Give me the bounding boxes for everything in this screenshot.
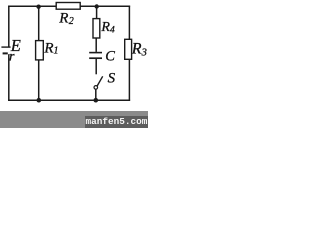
svg-text:4: 4: [110, 25, 115, 35]
svg-text:r: r: [9, 49, 15, 64]
svg-text:3: 3: [141, 47, 147, 58]
wire right lower: [128, 59, 130, 101]
svg-text:C: C: [105, 49, 115, 65]
wire bottom horizontal: [8, 99, 130, 101]
resistor R4 box: [93, 19, 100, 38]
node dot top R1: [36, 5, 40, 9]
svg-text:R: R: [100, 20, 110, 35]
wire switch to bottom: [95, 89, 97, 100]
capacitor C top plate: [89, 52, 102, 54]
switch S lever: [97, 76, 103, 86]
node dot bottom switch: [94, 98, 99, 103]
resistor R3 box: [125, 39, 132, 59]
watermark text manfen5.com: [85, 116, 148, 128]
wire R1 branch upper: [38, 6, 40, 41]
wire R1 branch lower: [38, 60, 40, 100]
svg-text:R: R: [58, 11, 68, 27]
wire right upper: [128, 6, 130, 40]
wire R4 branch upper: [96, 6, 98, 18]
svg-text:1: 1: [54, 46, 59, 57]
capacitor C bottom plate: [89, 57, 102, 59]
wire R4 to capacitor: [95, 38, 97, 52]
wire top horizontal: [8, 5, 130, 7]
wire left lower (battery to bottom): [8, 54, 10, 101]
battery E,r negative plate: [3, 52, 8, 54]
resistor R2 box: [56, 3, 80, 10]
watermark band: [0, 111, 148, 128]
node dot bottom R1: [37, 98, 42, 103]
node dot top R4: [95, 4, 99, 8]
svg-text:R: R: [43, 40, 53, 56]
wire capacitor to switch: [95, 59, 97, 74]
svg-text:S: S: [108, 71, 116, 87]
wire left upper (to battery): [8, 6, 10, 47]
svg-text:2: 2: [69, 16, 74, 27]
resistor R1 box: [36, 41, 44, 60]
battery E,r positive plate: [1, 46, 10, 48]
switch S pivot circle: [94, 86, 98, 90]
svg-text:R: R: [131, 41, 142, 58]
